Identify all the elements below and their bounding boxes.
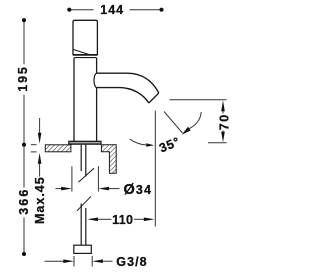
countertop right L-section (hatched) — [101, 145, 116, 173]
svg-text:366: 366 — [17, 188, 31, 215]
spout outlet cut edge — [149, 93, 159, 103]
supply pipe lower-right line — [85, 208, 87, 245]
supply pipe upper-right line — [85, 145, 87, 177]
dim 110 left arrowhead — [87, 218, 98, 222]
svg-text:195: 195 — [16, 65, 30, 92]
35deg vertical extension line — [154, 111, 156, 227]
svg-text:144: 144 — [100, 3, 124, 17]
connection nut — [74, 245, 92, 253]
G3/8 right extension line — [91, 256, 93, 267]
dim 110 line left — [97, 218, 111, 220]
dim 110 line right — [134, 218, 145, 220]
dim 144 line — [69, 9, 161, 11]
Max.45 lower arrow line — [39, 164, 41, 177]
supply pipe lower-left line — [80, 204, 82, 246]
G3/8 right arrow — [92, 259, 103, 263]
dim 70 bottom arrowhead (down) — [221, 132, 225, 143]
counter level extension right — [208, 142, 227, 144]
svg-text:70: 70 — [218, 113, 232, 130]
35deg leader arrow to vertical — [130, 139, 147, 145]
pipe break mark lower — [77, 196, 91, 211]
Max.45 lower arrowhead (up) — [38, 153, 42, 164]
svg-text:Ø34: Ø34 — [124, 182, 153, 198]
chain dot middle (counter level) — [22, 143, 26, 147]
base flange inner highlight — [70, 142, 101, 144]
spout outlet reference line — [170, 99, 227, 101]
handle lever — [73, 20, 97, 54]
dim 70 top arrowhead (up) — [221, 100, 225, 111]
dia34 left arrow — [56, 188, 63, 190]
dim 144 left dot — [67, 8, 71, 12]
svg-text:Max.45: Max.45 — [33, 176, 47, 224]
spout bottom edge — [97, 88, 149, 103]
chain dot top (handle level) — [22, 18, 26, 22]
dia34 left extension line — [71, 166, 73, 191]
left dimension chain line (195/366) — [23, 20, 25, 254]
supply pipe upper-left line — [80, 145, 82, 171]
Max.45 upper arrow line — [39, 118, 41, 133]
svg-text:G3/8: G3/8 — [116, 255, 147, 269]
Max.45 upper arrowhead (down) — [38, 133, 42, 144]
body left edge — [73, 58, 75, 141]
body right edge upper — [96, 58, 98, 74]
dim 110 right arrowhead — [144, 218, 155, 222]
counter top tick left — [31, 144, 37, 146]
spout cap arc — [94, 73, 97, 87]
countertop left section (hatched) — [45, 145, 71, 152]
dia34 right arrow — [98, 187, 109, 191]
35deg arc arrow — [189, 112, 201, 129]
G3/8 left extension line — [73, 256, 75, 267]
dia34 right extension line — [97, 166, 99, 191]
neck top line of body — [74, 57, 96, 59]
body right edge lower — [96, 88, 98, 141]
handle bottom thick line — [73, 54, 97, 56]
spout top edge — [97, 73, 159, 93]
handle base diagonal — [73, 49, 89, 54]
pipe break mark upper — [78, 168, 94, 182]
base flange — [68, 141, 101, 145]
dim 70 vertical line — [222, 110, 224, 134]
chain dot bottom — [22, 252, 26, 256]
G3/8 left arrow — [45, 260, 65, 262]
dim 144 right dot — [159, 8, 163, 12]
svg-text:110: 110 — [112, 213, 133, 227]
counter bottom tick left — [31, 151, 37, 153]
35deg axis diagonal line — [164, 112, 183, 134]
